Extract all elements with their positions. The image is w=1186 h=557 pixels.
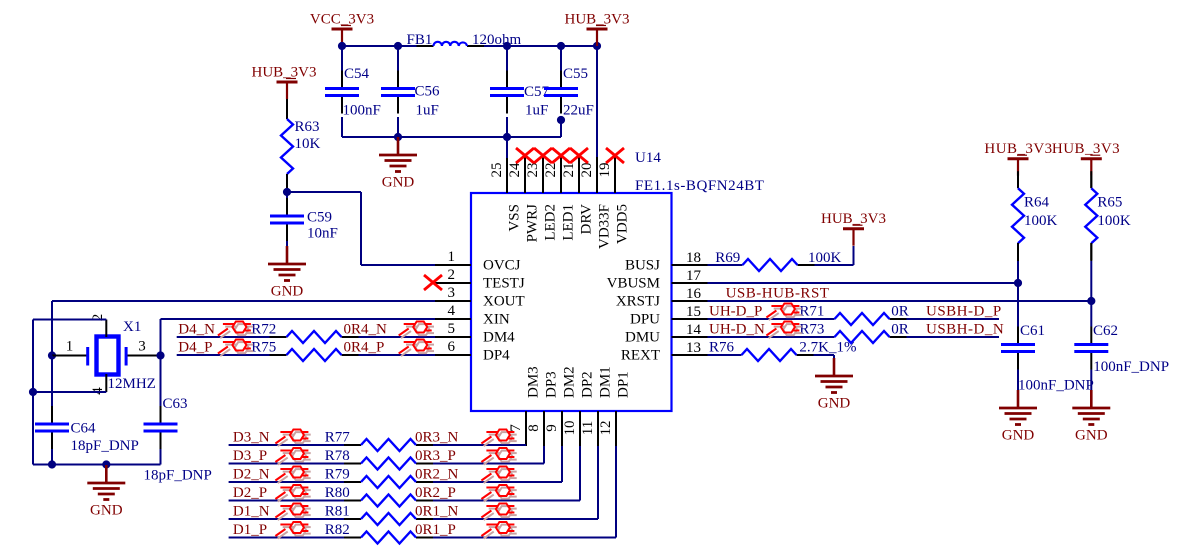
pin 10 DP2 bbox=[579, 411, 581, 446]
svg-text:DRV: DRV bbox=[579, 204, 595, 235]
svg-text:GND: GND bbox=[271, 284, 304, 300]
svg-text:D2_P: D2_P bbox=[233, 485, 267, 501]
svg-text:1: 1 bbox=[448, 249, 456, 265]
svg-text:C56: C56 bbox=[415, 84, 441, 100]
svg-text:HUB_3V3: HUB_3V3 bbox=[984, 141, 1052, 157]
ground GND under C61 bbox=[1017, 390, 1020, 408]
no-ERC mark pin 2 bbox=[424, 275, 442, 290]
differential pair marker D4_P bbox=[235, 342, 249, 353]
svg-text:R76: R76 bbox=[709, 340, 735, 356]
svg-text:100nF_DNP: 100nF_DNP bbox=[1093, 359, 1169, 375]
svg-text:DP2: DP2 bbox=[580, 371, 596, 398]
differential pair marker D1_P bbox=[292, 525, 306, 536]
capacitor C61 bbox=[1017, 283, 1019, 327]
svg-text:R63: R63 bbox=[295, 119, 320, 135]
node junction pin17/R64/C61 bbox=[1014, 279, 1022, 287]
svg-text:PWRJ: PWRJ bbox=[525, 204, 541, 243]
svg-text:25: 25 bbox=[489, 163, 505, 178]
svg-text:HUB_3V3: HUB_3V3 bbox=[251, 65, 316, 81]
svg-text:100K: 100K bbox=[1024, 213, 1058, 229]
ground GND decoupling bbox=[397, 137, 400, 155]
pin 2 TESTJ bbox=[435, 282, 471, 284]
svg-text:C62: C62 bbox=[1093, 323, 1118, 339]
net UH-D_P / resistor R71 0R bbox=[708, 318, 835, 320]
svg-text:0R3_N: 0R3_N bbox=[415, 429, 459, 445]
wire top rail bbox=[342, 45, 417, 47]
svg-text:11: 11 bbox=[580, 421, 596, 435]
svg-text:12: 12 bbox=[598, 421, 614, 436]
svg-text:XIN: XIN bbox=[483, 312, 510, 328]
net D2_N / resistor R79 bbox=[229, 481, 344, 483]
capacitor C55 bbox=[560, 46, 562, 71]
net D3_P / resistor R78 bbox=[229, 463, 344, 465]
svg-text:R65: R65 bbox=[1097, 195, 1122, 211]
svg-text:USBH-D_N: USBH-D_N bbox=[926, 322, 1004, 338]
differential pair marker 0R1_N bbox=[498, 506, 512, 517]
svg-text:C54: C54 bbox=[344, 66, 370, 82]
wire pin17 VBUSM to R64 bbox=[708, 282, 1019, 284]
svg-text:18: 18 bbox=[686, 250, 701, 266]
svg-text:DP1: DP1 bbox=[616, 371, 632, 398]
pin 5 DM4 bbox=[435, 336, 471, 338]
wire R63 junction to pin 1 OVCJ bbox=[287, 191, 361, 193]
svg-text:6: 6 bbox=[448, 339, 456, 355]
svg-text:1uF: 1uF bbox=[416, 103, 439, 119]
svg-text:FB1: FB1 bbox=[407, 32, 433, 48]
svg-text:HUB_3V3: HUB_3V3 bbox=[564, 12, 629, 28]
svg-text:0R3_P: 0R3_P bbox=[415, 448, 456, 464]
differential pair marker D3_P bbox=[292, 451, 306, 462]
svg-text:R77: R77 bbox=[325, 429, 351, 445]
differential pair marker 0R1_P bbox=[498, 525, 512, 536]
capacitor C57 bbox=[506, 46, 508, 71]
svg-text:HUB_3V3: HUB_3V3 bbox=[1052, 141, 1120, 157]
power port HUB_3V3 mid bbox=[843, 227, 864, 230]
svg-text:4: 4 bbox=[90, 387, 106, 395]
svg-text:100K: 100K bbox=[1097, 213, 1131, 229]
svg-text:OVCJ: OVCJ bbox=[483, 258, 521, 274]
node junction VCC rail bbox=[338, 42, 346, 50]
svg-text:DP3: DP3 bbox=[544, 371, 560, 398]
svg-text:20: 20 bbox=[579, 163, 595, 178]
svg-text:9: 9 bbox=[544, 424, 560, 432]
pin 18 BUSJ bbox=[672, 264, 708, 266]
svg-text:10nF: 10nF bbox=[307, 226, 338, 242]
net D4_P / resistor R75 bbox=[177, 354, 270, 356]
pin 24 PWRJ bbox=[524, 157, 526, 193]
svg-text:R71: R71 bbox=[799, 304, 824, 320]
svg-text:24: 24 bbox=[507, 162, 523, 178]
svg-text:U14: U14 bbox=[635, 150, 661, 166]
pin 23 LED2 bbox=[542, 157, 544, 193]
differential pair marker UH-D_N bbox=[783, 324, 797, 335]
differential pair marker 0R2_N bbox=[498, 469, 512, 480]
svg-text:VBUSM: VBUSM bbox=[607, 276, 660, 292]
node junction R63/C59 bbox=[283, 188, 291, 196]
pin 13 REXT bbox=[672, 354, 708, 356]
svg-text:VDD5: VDD5 bbox=[615, 204, 631, 244]
svg-text:0R4_N: 0R4_N bbox=[344, 321, 388, 337]
pin 14 DMU bbox=[672, 336, 708, 338]
wire VSS pin25 to ground rail bbox=[506, 137, 508, 158]
resistor R65 100K bbox=[1090, 176, 1092, 188]
wire crystal pin2 loop bbox=[105, 320, 107, 338]
pin 1 OVCJ bbox=[435, 264, 471, 266]
resistor R69 to HUB_3V3 bbox=[708, 264, 743, 266]
net D4_N / resistor R72 bbox=[177, 336, 270, 338]
svg-text:100nF_DNP: 100nF_DNP bbox=[1018, 378, 1094, 394]
wire crystal ground rail bbox=[33, 464, 161, 466]
differential pair marker 0R4_N bbox=[416, 324, 430, 335]
wire decoupling ground rail bbox=[342, 136, 561, 138]
svg-text:C61: C61 bbox=[1020, 323, 1045, 339]
svg-text:R72: R72 bbox=[251, 321, 276, 337]
svg-text:VD33F: VD33F bbox=[597, 204, 613, 249]
pin 8 DP3 bbox=[543, 411, 545, 446]
svg-text:FE1.1s-BQFN24BT: FE1.1s-BQFN24BT bbox=[635, 178, 765, 194]
svg-text:GND: GND bbox=[818, 396, 851, 412]
differential pair marker 0R4_P bbox=[416, 342, 430, 353]
no-ERC marks on pins 24 23 22 21 19 bbox=[516, 148, 534, 163]
pin 4 XIN bbox=[435, 318, 471, 320]
capacitor C54 bbox=[341, 46, 343, 71]
node junction crystal pin1 bbox=[48, 351, 56, 359]
svg-text:D3_P: D3_P bbox=[233, 448, 267, 464]
svg-text:R82: R82 bbox=[325, 522, 350, 538]
svg-text:BUSJ: BUSJ bbox=[625, 258, 660, 274]
svg-text:REXT: REXT bbox=[621, 348, 660, 364]
svg-text:R80: R80 bbox=[325, 485, 350, 501]
net D2_P / resistor R80 bbox=[229, 500, 344, 502]
svg-text:DMU: DMU bbox=[625, 330, 660, 346]
capacitor C59 bbox=[286, 192, 288, 198]
svg-text:0R2_P: 0R2_P bbox=[415, 485, 456, 501]
ferrite bead FB1 bbox=[434, 42, 467, 46]
svg-text:5: 5 bbox=[448, 321, 456, 337]
node junction case ground bbox=[29, 388, 37, 396]
differential pair marker D4_N bbox=[235, 324, 249, 335]
svg-text:DM3: DM3 bbox=[526, 366, 542, 398]
svg-text:LED1: LED1 bbox=[561, 204, 577, 241]
svg-text:18pF_DNP: 18pF_DNP bbox=[144, 468, 212, 484]
svg-text:XRSTJ: XRSTJ bbox=[616, 294, 660, 310]
ground GND crystal bbox=[105, 465, 108, 483]
pin 12 DP1 bbox=[615, 411, 617, 446]
pin 19 VDD5 bbox=[614, 157, 616, 193]
differential pair marker D2_N bbox=[292, 469, 306, 480]
svg-text:19: 19 bbox=[597, 163, 613, 178]
svg-text:R64: R64 bbox=[1024, 195, 1050, 211]
node junction C55 lead bbox=[557, 116, 565, 124]
capacitor C64 bbox=[51, 356, 53, 407]
net UH-D_N / resistor R73 0R bbox=[708, 336, 835, 338]
power port VCC_3V3 bbox=[332, 28, 353, 31]
net D1_N / resistor R81 bbox=[229, 518, 344, 520]
svg-text:R75: R75 bbox=[251, 339, 276, 355]
differential pair marker 0R3_N bbox=[498, 432, 512, 443]
svg-text:12MHZ: 12MHZ bbox=[108, 376, 156, 392]
resistor R63 bbox=[286, 99, 288, 119]
svg-text:D1_N: D1_N bbox=[233, 503, 270, 519]
svg-text:13: 13 bbox=[686, 340, 701, 356]
power port HUB_3V3 over R65 bbox=[1081, 157, 1102, 160]
node junction crystal pin3 bbox=[156, 351, 164, 359]
differential pair marker D1_N bbox=[292, 506, 306, 517]
svg-text:GND: GND bbox=[1002, 428, 1035, 444]
svg-text:DP4: DP4 bbox=[483, 348, 510, 364]
pin 21 DRV bbox=[578, 157, 580, 193]
svg-text:VCC_3V3: VCC_3V3 bbox=[310, 12, 374, 28]
svg-text:R81: R81 bbox=[325, 503, 350, 519]
svg-text:D4_N: D4_N bbox=[178, 321, 215, 337]
resistor R64 100K bbox=[1017, 176, 1019, 188]
ground GND under C59 bbox=[286, 246, 289, 264]
wire crystal pin4 bbox=[105, 374, 107, 392]
pin 6 DP4 bbox=[435, 354, 471, 356]
crystal X1 12MHZ bbox=[52, 355, 88, 357]
svg-text:VSS: VSS bbox=[507, 204, 523, 232]
svg-text:3: 3 bbox=[448, 285, 456, 301]
net D3_N / resistor R77 bbox=[229, 444, 344, 446]
pin 25 VSS bbox=[506, 157, 508, 193]
svg-text:16: 16 bbox=[686, 286, 702, 302]
svg-text:TESTJ: TESTJ bbox=[483, 276, 525, 292]
wire pin 4 XIN to crystal node bbox=[161, 318, 436, 320]
svg-text:120ohm: 120ohm bbox=[472, 32, 522, 48]
svg-text:7: 7 bbox=[508, 424, 524, 432]
svg-text:XOUT: XOUT bbox=[483, 294, 525, 310]
svg-text:22uF: 22uF bbox=[563, 103, 594, 119]
power port HUB_3V3 left bbox=[277, 81, 298, 84]
pin 7 DM3 bbox=[525, 411, 527, 446]
ground GND under R76 bbox=[833, 358, 836, 376]
svg-text:0R1_N: 0R1_N bbox=[415, 503, 459, 519]
svg-text:C59: C59 bbox=[307, 210, 332, 226]
svg-text:10K: 10K bbox=[295, 136, 321, 152]
svg-text:0R2_N: 0R2_N bbox=[415, 466, 459, 482]
svg-text:C64: C64 bbox=[71, 421, 97, 437]
pin 9 DM2 bbox=[561, 411, 563, 446]
svg-text:USBH-D_P: USBH-D_P bbox=[926, 304, 1002, 320]
svg-text:GND: GND bbox=[1075, 428, 1108, 444]
svg-text:1uF: 1uF bbox=[525, 103, 548, 119]
svg-text:R73: R73 bbox=[799, 322, 824, 338]
svg-text:R79: R79 bbox=[325, 466, 350, 482]
svg-text:2.7K_1%: 2.7K_1% bbox=[799, 340, 856, 356]
svg-text:D2_N: D2_N bbox=[233, 466, 270, 482]
svg-text:HUB_3V3: HUB_3V3 bbox=[821, 211, 886, 227]
svg-text:17: 17 bbox=[686, 268, 702, 284]
svg-text:D1_P: D1_P bbox=[233, 522, 267, 538]
net D1_P / resistor R82 bbox=[229, 537, 344, 539]
wire pin 3 XOUT to crystal bbox=[52, 300, 435, 302]
svg-text:USB-HUB-RST: USB-HUB-RST bbox=[726, 286, 830, 302]
svg-text:DM1: DM1 bbox=[598, 366, 614, 398]
pin 17 VBUSM bbox=[672, 282, 708, 284]
power port HUB_3V3 over R64 bbox=[1008, 157, 1029, 160]
svg-text:0R1_P: 0R1_P bbox=[415, 522, 456, 538]
svg-text:GND: GND bbox=[90, 503, 123, 519]
pin 15 DPU bbox=[672, 318, 708, 320]
svg-text:8: 8 bbox=[526, 424, 542, 432]
wire HUB_3V3 to pin 20 bbox=[596, 46, 598, 158]
capacitor C63 bbox=[160, 356, 162, 407]
svg-text:22: 22 bbox=[543, 163, 559, 178]
svg-text:0R: 0R bbox=[891, 304, 909, 320]
svg-text:0R: 0R bbox=[891, 322, 909, 338]
svg-text:2: 2 bbox=[448, 267, 456, 283]
svg-text:14: 14 bbox=[686, 322, 702, 338]
svg-text:100K: 100K bbox=[808, 250, 842, 266]
svg-text:D3_N: D3_N bbox=[233, 429, 270, 445]
svg-text:C57: C57 bbox=[524, 84, 550, 100]
svg-text:0R4_P: 0R4_P bbox=[344, 339, 385, 355]
differential pair marker UH-D_P bbox=[783, 306, 797, 317]
power port HUB_3V3 top bbox=[587, 28, 608, 31]
svg-text:GND: GND bbox=[382, 175, 415, 191]
svg-text:X1: X1 bbox=[123, 319, 141, 335]
svg-text:D4_P: D4_P bbox=[178, 339, 212, 355]
wire pin16 USB-HUB-RST to R65 bbox=[708, 300, 1092, 302]
differential pair marker 0R3_P bbox=[498, 451, 512, 462]
svg-text:DPU: DPU bbox=[630, 312, 660, 328]
node junction pin16/R65/C62 bbox=[1087, 297, 1095, 305]
svg-text:C63: C63 bbox=[163, 396, 188, 412]
pin 22 LED1 bbox=[560, 157, 562, 193]
differential pair marker D2_P bbox=[292, 488, 306, 499]
svg-text:DM2: DM2 bbox=[562, 366, 578, 398]
ground GND under C62 bbox=[1090, 390, 1093, 408]
svg-text:1: 1 bbox=[66, 339, 74, 355]
pin 3 XOUT bbox=[435, 300, 471, 302]
svg-text:23: 23 bbox=[525, 163, 541, 178]
svg-text:4: 4 bbox=[448, 303, 456, 319]
svg-text:18pF_DNP: 18pF_DNP bbox=[71, 438, 139, 454]
svg-text:3: 3 bbox=[138, 339, 146, 355]
svg-text:LED2: LED2 bbox=[543, 204, 559, 241]
differential pair marker D3_N bbox=[292, 432, 306, 443]
pin 16 XRSTJ bbox=[672, 300, 708, 302]
svg-text:100nF: 100nF bbox=[343, 103, 381, 119]
differential pair marker 0R2_P bbox=[498, 488, 512, 499]
svg-text:R69: R69 bbox=[715, 250, 740, 266]
pin 11 DM1 bbox=[597, 411, 599, 446]
IC U14 FE1.1s-BQFN24BT body bbox=[471, 193, 672, 411]
capacitor C62 bbox=[1090, 301, 1092, 327]
pin 20 VD33F bbox=[596, 157, 598, 193]
svg-text:UH-D_P: UH-D_P bbox=[709, 304, 762, 320]
svg-text:21: 21 bbox=[561, 163, 577, 178]
svg-text:15: 15 bbox=[686, 304, 701, 320]
svg-text:R78: R78 bbox=[325, 448, 350, 464]
capacitor C56 bbox=[397, 46, 399, 71]
svg-text:DM4: DM4 bbox=[483, 330, 515, 346]
svg-text:10: 10 bbox=[562, 421, 578, 436]
resistor R76 2.7K_1% bbox=[708, 354, 742, 356]
svg-text:UH-D_N: UH-D_N bbox=[709, 322, 765, 338]
svg-text:C55: C55 bbox=[563, 66, 588, 82]
